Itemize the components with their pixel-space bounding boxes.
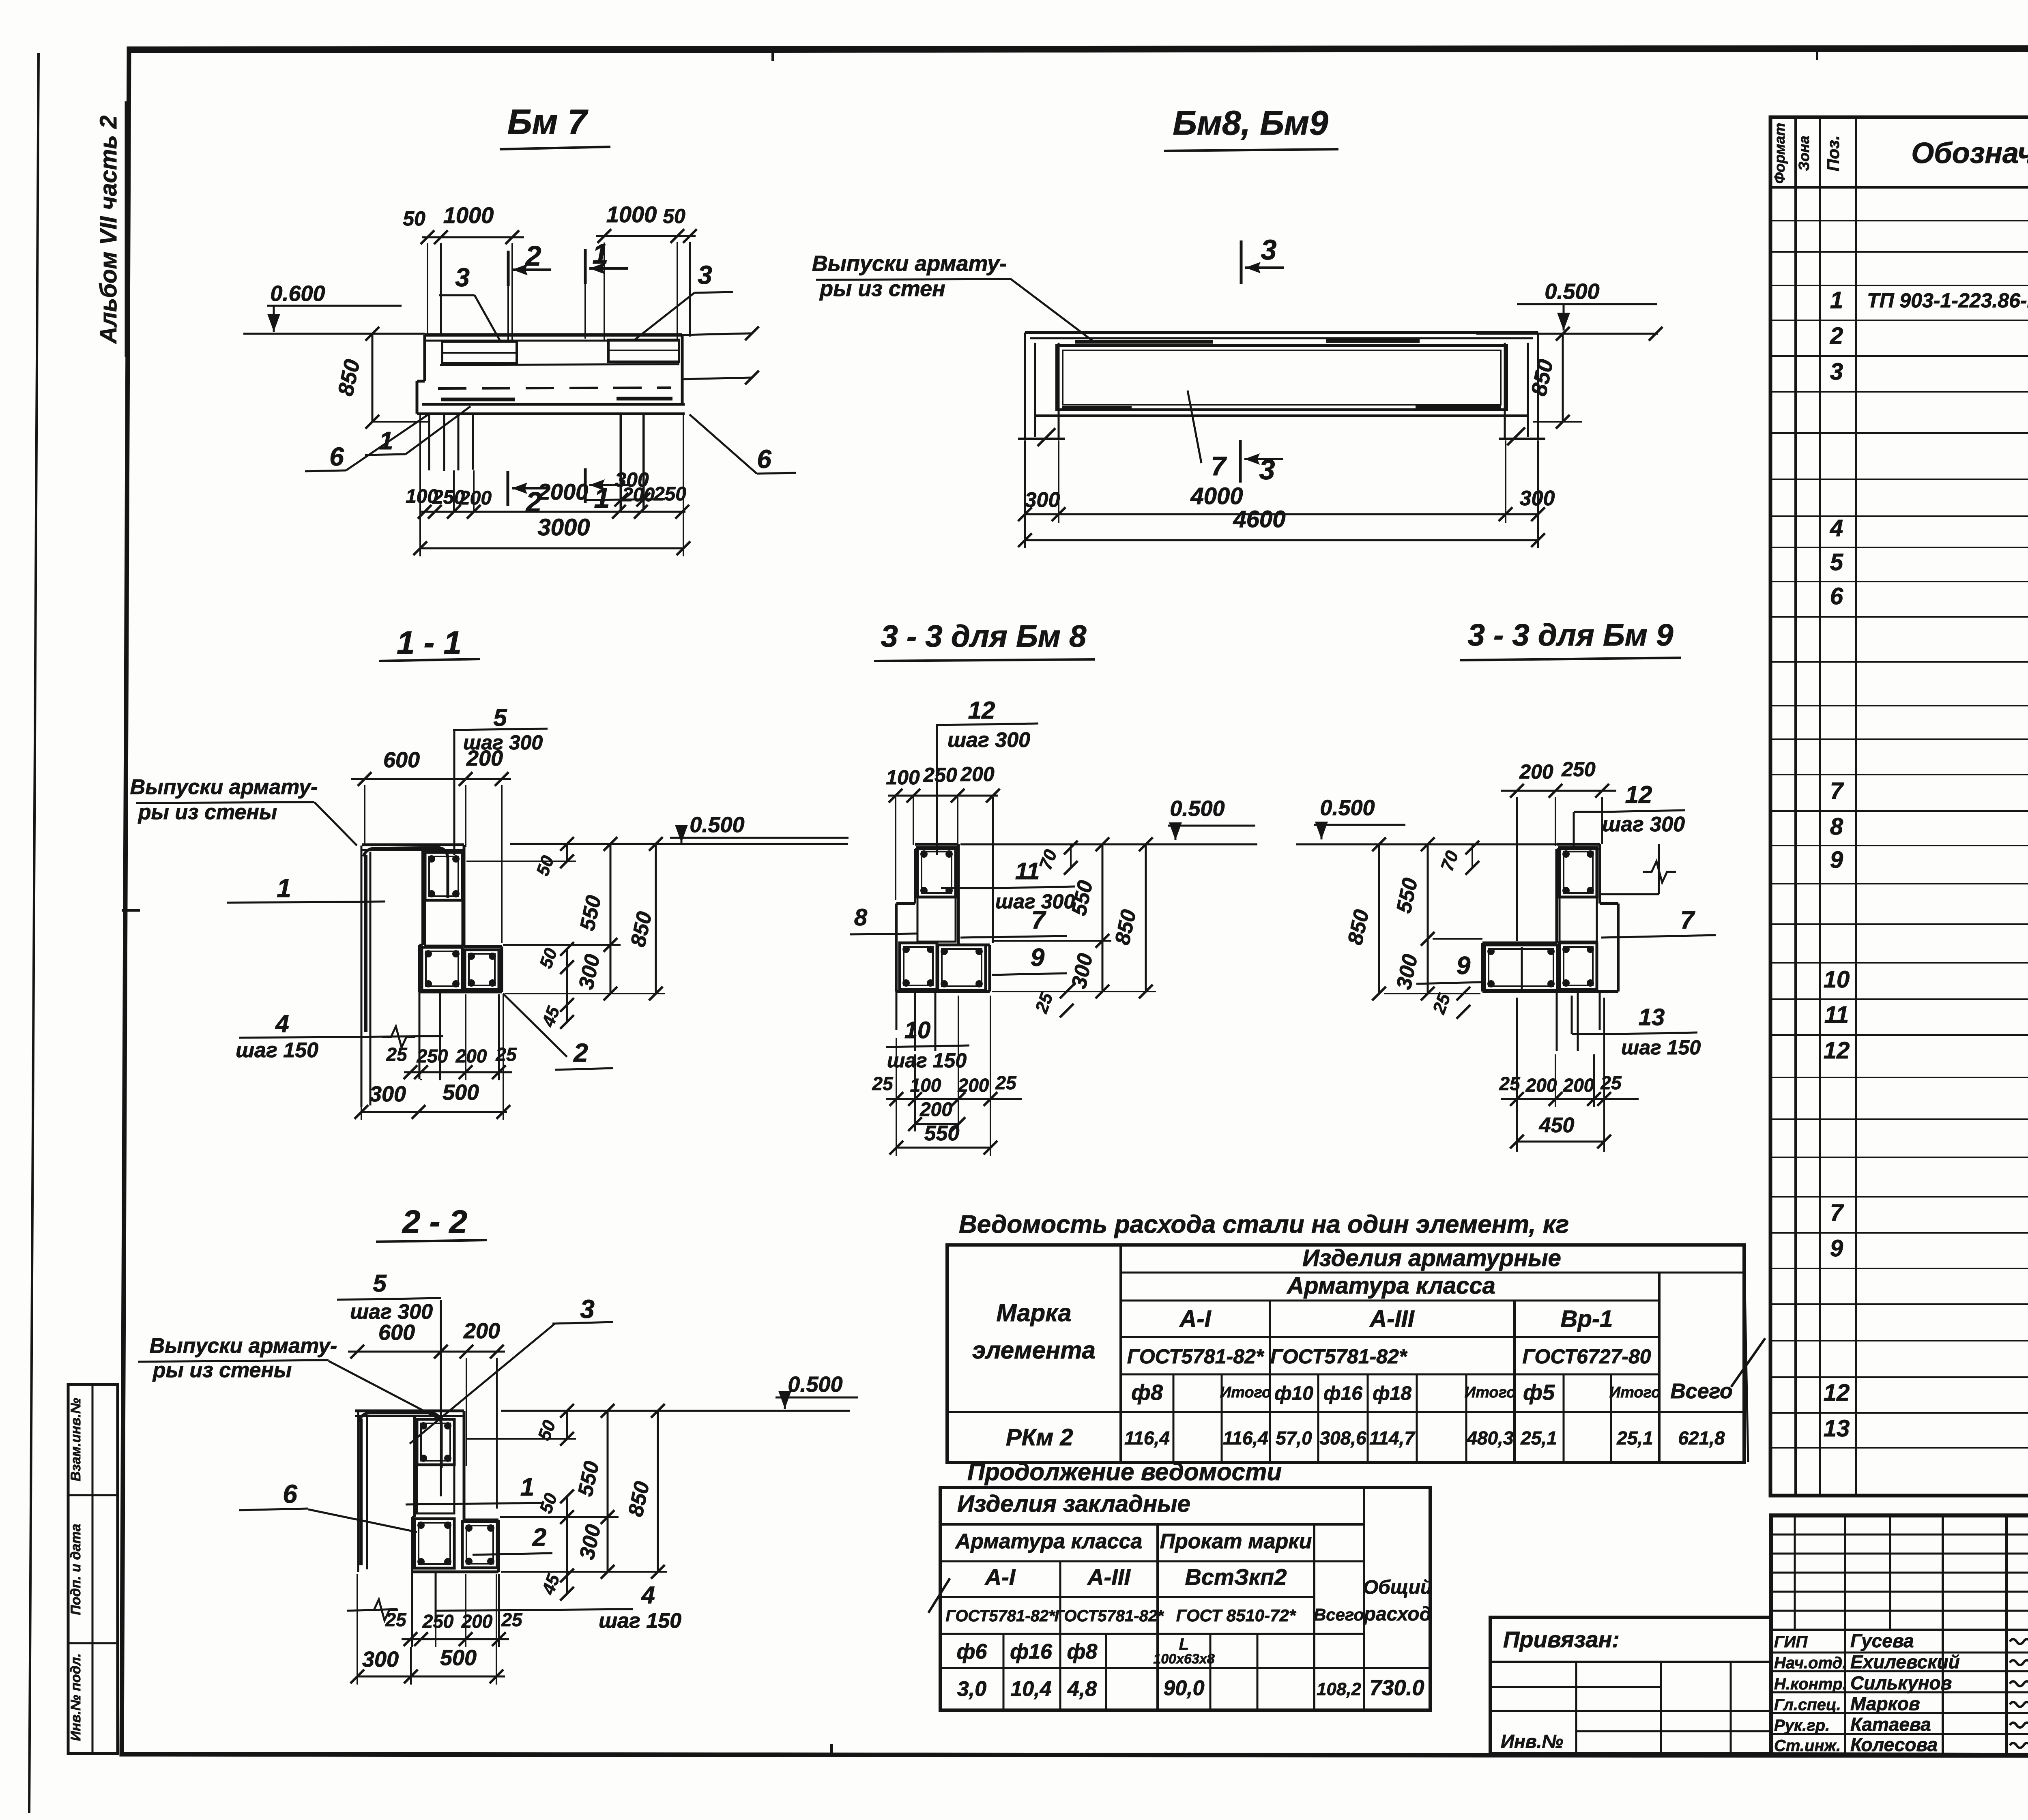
svg-text:200: 200 — [958, 1075, 989, 1096]
svg-text:Общий: Общий — [1363, 1577, 1433, 1598]
svg-text:ф16: ф16 — [1323, 1383, 1362, 1404]
svg-text:шаг 150: шаг 150 — [236, 1039, 318, 1062]
beam Bm7 inner chord line — [440, 364, 679, 365]
left stamp boxes outline — [68, 1384, 118, 1753]
dim 850 left vertical — [372, 334, 374, 422]
svg-text:РКм 2: РКм 2 — [1006, 1424, 1073, 1451]
svg-text:25: 25 — [872, 1073, 894, 1094]
cage mid s11 — [425, 900, 462, 946]
svg-text:Марка: Марка — [996, 1299, 1071, 1326]
svg-text:Катаева: Катаева — [1850, 1714, 1931, 1735]
svg-text:расход: расход — [1363, 1603, 1432, 1625]
dim ext s39 — [1384, 993, 1480, 994]
section mark 3 top mid — [1240, 240, 1243, 284]
svg-text:300: 300 — [370, 1082, 406, 1106]
svg-text:ГОСТ5781-82*: ГОСТ5781-82* — [1127, 1345, 1265, 1368]
svg-text:25,1: 25,1 — [1616, 1427, 1653, 1449]
svg-text:2: 2 — [1830, 323, 1843, 349]
beam Bm8 bottom bold bar right — [1416, 405, 1501, 408]
svg-text:ры из стены: ры из стены — [137, 801, 277, 824]
svg-text:6: 6 — [329, 442, 344, 471]
svg-text:Бм 7: Бм 7 — [507, 103, 589, 142]
svg-text:1000: 1000 — [443, 202, 494, 228]
signature Нач.отд. — [2010, 1660, 2028, 1665]
dim 1000-50 right top — [596, 235, 696, 237]
cage upper s22 — [417, 1419, 454, 1465]
svg-text:Итого: Итого — [1220, 1384, 1271, 1401]
svg-text:ГИП: ГИП — [1774, 1633, 1808, 1651]
svg-text:4000: 4000 — [1190, 483, 1243, 509]
svg-text:7: 7 — [1680, 906, 1695, 934]
svg-text:250: 250 — [422, 1611, 454, 1632]
svg-text:L: L — [1179, 1635, 1189, 1653]
cage shelf s38 — [938, 945, 986, 990]
dim ext s22 top — [466, 1358, 467, 1466]
svg-text:ГОСТ5781-82*: ГОСТ5781-82* — [1270, 1345, 1408, 1368]
left stamp inner vertical — [92, 1384, 94, 1753]
svg-text:6: 6 — [757, 444, 771, 474]
dim 600-200 top s11 — [351, 778, 511, 780]
svg-text:200: 200 — [919, 1099, 952, 1120]
svg-text:3: 3 — [1261, 234, 1277, 266]
cage bottom s11 — [422, 947, 462, 990]
svg-text:Выпуски армату-: Выпуски армату- — [150, 1334, 337, 1358]
svg-text:0.500: 0.500 — [788, 1372, 842, 1397]
svg-text:Ехилевский: Ехилевский — [1850, 1651, 1960, 1672]
svg-text:0.500: 0.500 — [1545, 279, 1599, 304]
svg-text:Всего: Всего — [1314, 1605, 1364, 1624]
dim 550-300 s38 — [1102, 844, 1104, 992]
dim 25-250-200-25 s11 — [404, 1071, 512, 1073]
dim 550-300 s11 — [610, 844, 612, 994]
fold mark tick top 1 — [771, 47, 774, 61]
vedomost1 break mark right — [1744, 1245, 1748, 1462]
svg-text:200: 200 — [455, 1045, 487, 1067]
svg-text:7: 7 — [1211, 451, 1227, 481]
svg-text:25: 25 — [501, 1609, 523, 1630]
svg-text:3 - 3 для Бм 9: 3 - 3 для Бм 9 — [1468, 618, 1674, 652]
svg-text:Колесова: Колесова — [1850, 1734, 1938, 1755]
wall below s22 — [411, 1572, 413, 1622]
beam Bm8 inner cage — [1057, 346, 1507, 410]
dim ext verticals Bm8 — [1024, 440, 1026, 548]
svg-text:9: 9 — [1830, 847, 1843, 873]
svg-text:Марков: Марков — [1850, 1693, 1920, 1714]
section s39 outline — [1557, 843, 1600, 846]
dim 550-300 s22 — [607, 1411, 609, 1572]
svg-text:200: 200 — [1563, 1075, 1594, 1096]
beam Bm7 right wall lines — [682, 333, 752, 335]
svg-text:11: 11 — [1015, 858, 1040, 884]
cage upper s11 — [425, 852, 462, 900]
svg-text:3 - 3 для Бм 8: 3 - 3 для Бм 8 — [881, 619, 1087, 654]
svg-text:9: 9 — [1457, 952, 1471, 980]
svg-text:Инв.№: Инв.№ — [1501, 1731, 1563, 1752]
dim ext verticals bottom — [419, 414, 421, 556]
section cut line 1 — [584, 284, 586, 339]
svg-text:элемента: элемента — [972, 1337, 1096, 1364]
svg-text:Взам.инв.№: Взам.инв.№ — [68, 1398, 84, 1481]
section mark 1 bottom — [584, 468, 587, 503]
svg-text:Арматура класса: Арматура класса — [955, 1530, 1143, 1553]
svg-text:250: 250 — [417, 1045, 448, 1067]
beam Bm7 bar verticals below left — [428, 414, 430, 470]
svg-text:25,1: 25,1 — [1520, 1427, 1557, 1449]
dim 450 s39 — [1517, 1141, 1604, 1143]
svg-text:2000: 2000 — [537, 479, 589, 504]
cage bottom s22 — [415, 1519, 454, 1568]
svg-text:1000: 1000 — [606, 202, 657, 227]
wall s11 outline — [361, 846, 363, 1107]
signature Гл.спец. — [2010, 1702, 2028, 1707]
album label underline — [125, 101, 127, 357]
svg-text:200: 200 — [622, 484, 655, 506]
outer left paper edge line — [29, 53, 39, 1813]
svg-text:шаг 300: шаг 300 — [1602, 813, 1685, 836]
svg-text:шаг 150: шаг 150 — [599, 1609, 681, 1633]
svg-text:1 - 1: 1 - 1 — [397, 625, 462, 661]
dim 550-300 s39 — [1427, 844, 1429, 994]
svg-text:12: 12 — [968, 697, 995, 724]
svg-text:6: 6 — [283, 1479, 297, 1509]
svg-text:50: 50 — [663, 205, 685, 227]
svg-text:Гл.спец.: Гл.спец. — [1774, 1696, 1841, 1714]
signature ГИП — [2010, 1639, 2028, 1644]
svg-text:4: 4 — [1830, 515, 1843, 541]
svg-text:1: 1 — [593, 238, 608, 270]
svg-text:13: 13 — [1639, 1004, 1665, 1030]
dim row 300-4000-300 Bm8 — [1025, 513, 1538, 515]
dim ext s11 bottom — [361, 998, 362, 1120]
svg-text:3: 3 — [580, 1294, 595, 1324]
dim row 4600 — [1025, 539, 1538, 541]
svg-text:0.500: 0.500 — [690, 813, 744, 837]
beam Bm7 bottom bold bar right — [617, 397, 672, 401]
svg-text:1: 1 — [594, 482, 610, 514]
svg-text:250: 250 — [1561, 758, 1596, 781]
svg-text:90,0: 90,0 — [1163, 1676, 1204, 1700]
svg-text:0.600: 0.600 — [270, 281, 325, 306]
svg-text:116,4: 116,4 — [1223, 1427, 1268, 1449]
svg-text:Ведомость расхода стали на оди: Ведомость расхода стали на один элемент,… — [959, 1210, 1569, 1238]
dim row 3000 — [420, 547, 683, 549]
wall below s39 — [1556, 992, 1558, 1051]
dim 200-250 top s39 — [1501, 790, 1616, 792]
signature Ст.инж. — [2010, 1743, 2028, 1748]
dim ext s38 top — [895, 797, 896, 900]
dim 200 s38 — [915, 1123, 958, 1125]
svg-text:250: 250 — [653, 483, 686, 505]
svg-text:108,2: 108,2 — [1317, 1679, 1362, 1699]
svg-text:Изделия закладные: Изделия закладные — [957, 1491, 1190, 1517]
svg-text:12: 12 — [1625, 781, 1652, 808]
svg-text:8: 8 — [1830, 813, 1843, 840]
vedomost2 break mark left — [928, 1578, 950, 1613]
left stamp divider 1 — [68, 1494, 118, 1496]
svg-text:Итого: Итого — [1465, 1384, 1516, 1401]
dim 100-250-200 top s38 — [888, 795, 998, 797]
svg-text:А-III: А-III — [1087, 1564, 1131, 1590]
beam Bm7 dashed bar — [438, 388, 671, 388]
svg-text:Рук.гр.: Рук.гр. — [1774, 1717, 1830, 1734]
svg-text:ГОСТ6727-80: ГОСТ6727-80 — [1522, 1345, 1651, 1368]
cage bottom s38 — [900, 943, 937, 989]
svg-text:Прокат марки: Прокат марки — [1160, 1530, 1312, 1553]
svg-text:25: 25 — [386, 1044, 408, 1065]
svg-text:Н.контр.: Н.контр. — [1774, 1675, 1847, 1693]
svg-text:Выпуски армату-: Выпуски армату- — [812, 251, 1007, 276]
svg-text:200: 200 — [466, 746, 503, 770]
beam Bm8 leg tick left — [1038, 428, 1055, 446]
beam Bm8 outline — [1025, 331, 1538, 334]
svg-text:100: 100 — [886, 766, 920, 789]
svg-text:4: 4 — [275, 1010, 289, 1037]
cage shelf s39 — [1484, 945, 1558, 990]
svg-text:114,7: 114,7 — [1369, 1427, 1416, 1449]
svg-text:Силькунов: Силькунов — [1850, 1672, 1952, 1693]
svg-text:4: 4 — [641, 1582, 655, 1609]
section cut line 2 — [507, 286, 509, 340]
left stamp divider 2 — [68, 1642, 118, 1644]
svg-text:200: 200 — [463, 1319, 500, 1343]
svg-text:600: 600 — [378, 1320, 415, 1345]
svg-text:7: 7 — [1830, 1200, 1844, 1226]
svg-text:50: 50 — [403, 207, 425, 230]
dim ext s22 right — [500, 1516, 619, 1518]
svg-text:12: 12 — [1824, 1037, 1850, 1064]
dim row 100-250-200-2000-200-250 — [420, 511, 685, 513]
break mark s22 — [347, 1609, 397, 1611]
break line s39 — [1658, 844, 1660, 894]
svg-text:10: 10 — [904, 1017, 931, 1043]
svg-text:5: 5 — [1830, 549, 1843, 575]
svg-text:Гусева: Гусева — [1850, 1630, 1914, 1651]
signature Рук.гр. — [2010, 1723, 2028, 1728]
dim 300-500 s11 — [361, 1111, 507, 1113]
svg-text:200: 200 — [1519, 760, 1553, 783]
svg-text:200: 200 — [459, 487, 492, 509]
cage mid s38 — [917, 897, 956, 942]
svg-text:Подп. и дата: Подп. и дата — [68, 1524, 84, 1615]
dim 25-100-200-25 s38 — [886, 1098, 1022, 1100]
svg-text:Арматура класса: Арматура класса — [1286, 1273, 1495, 1299]
svg-text:2: 2 — [532, 1524, 546, 1552]
svg-text:25: 25 — [995, 1072, 1017, 1093]
fold mark tick top 2 — [1816, 47, 1818, 60]
svg-text:Всего: Всего — [1670, 1380, 1733, 1403]
cage upper s39 — [1560, 848, 1597, 897]
dim ext s38 bottom — [896, 1038, 897, 1156]
svg-text:450: 450 — [1539, 1114, 1575, 1137]
svg-text:Изделия арматурные: Изделия арматурные — [1302, 1245, 1561, 1271]
dim 850 right of Bm8 — [1562, 334, 1564, 422]
wall s22 — [357, 1411, 359, 1572]
svg-text:600: 600 — [383, 748, 420, 772]
svg-text:ТП 903-1-223.86-КЖИ-023.020: ТП 903-1-223.86-КЖИ-023.020 — [1867, 289, 2028, 312]
dim ext s39 bottom — [1516, 998, 1518, 1152]
section mark 2 top — [507, 251, 510, 286]
svg-text:116,4: 116,4 — [1124, 1427, 1170, 1449]
svg-text:9: 9 — [1031, 944, 1045, 972]
svg-text:4600: 4600 — [1233, 506, 1285, 532]
svg-text:Выпуски армату-: Выпуски армату- — [130, 775, 318, 799]
svg-text:ф5: ф5 — [1523, 1380, 1555, 1405]
dim top ext lines — [427, 243, 428, 335]
dim ext s39 top — [1516, 797, 1518, 941]
cage upper s38 — [917, 848, 956, 897]
svg-text:А-III: А-III — [1369, 1306, 1415, 1332]
svg-text:100х63х8: 100х63х8 — [1153, 1651, 1214, 1667]
svg-text:57,0: 57,0 — [1276, 1427, 1312, 1449]
svg-text:3: 3 — [698, 260, 712, 290]
svg-text:ГОСТ5781-82*: ГОСТ5781-82* — [945, 1607, 1056, 1625]
section mark 1 top — [584, 249, 587, 284]
svg-text:13: 13 — [1824, 1415, 1850, 1442]
svg-text:Зона: Зона — [1796, 136, 1812, 171]
section mark 2 bottom — [507, 471, 509, 506]
section s22 outline — [355, 1410, 464, 1412]
svg-text:3: 3 — [1259, 454, 1275, 485]
vedomost1 grid — [947, 1245, 1744, 1462]
svg-text:1: 1 — [520, 1473, 534, 1501]
svg-text:550: 550 — [924, 1122, 960, 1145]
svg-text:4,8: 4,8 — [1067, 1677, 1097, 1701]
svg-text:Поз.: Поз. — [1824, 135, 1843, 172]
svg-text:ф6: ф6 — [957, 1640, 988, 1663]
cage mid s39 — [1560, 897, 1597, 942]
svg-text:500: 500 — [443, 1080, 479, 1105]
svg-text:Инв.№ подл.: Инв.№ подл. — [68, 1653, 84, 1741]
dim 550 bottom s38 — [896, 1147, 990, 1149]
svg-text:0.500: 0.500 — [1170, 796, 1225, 821]
svg-text:308,6: 308,6 — [1319, 1427, 1366, 1449]
svg-text:5: 5 — [493, 704, 507, 731]
label 2 s11 — [503, 994, 567, 1057]
wall below s38 — [914, 992, 916, 1051]
svg-text:ВстЗкп2: ВстЗкп2 — [1185, 1564, 1287, 1590]
frame top edge thick overline — [129, 50, 2028, 52]
fold mark tick bottom — [830, 1744, 833, 1756]
svg-text:500: 500 — [440, 1646, 477, 1670]
svg-text:ф18: ф18 — [1373, 1383, 1411, 1404]
dim 600-200 top s22 — [348, 1351, 505, 1353]
section s38 outline — [915, 843, 958, 846]
fold mark tick left — [122, 909, 140, 912]
cage KR8 left plan rect — [442, 341, 517, 363]
svg-text:2: 2 — [573, 1038, 588, 1067]
svg-text:1: 1 — [277, 874, 291, 903]
dim ext s22 bottom — [357, 1574, 358, 1685]
beam Bm8 bottom bold bar left — [1062, 406, 1132, 409]
dim ext s38 — [992, 940, 1111, 942]
cage shelf s11 — [465, 950, 499, 989]
vedomost2 grid — [940, 1487, 1430, 1710]
svg-text:А-I: А-I — [1179, 1306, 1212, 1332]
svg-text:0.500: 0.500 — [1320, 796, 1375, 820]
svg-text:ф8: ф8 — [1067, 1640, 1098, 1663]
svg-text:200: 200 — [960, 763, 995, 786]
svg-text:3000: 3000 — [537, 514, 590, 541]
svg-text:Формат: Формат — [1771, 123, 1788, 184]
svg-text:3,0: 3,0 — [957, 1677, 986, 1701]
svg-text:3: 3 — [1830, 358, 1843, 385]
dim 850 s39 — [1378, 844, 1380, 994]
dim 850 s22 — [657, 1411, 659, 1572]
svg-text:9: 9 — [1830, 1235, 1843, 1262]
svg-text:11: 11 — [1824, 1002, 1849, 1028]
beam Bm7 bottom bold bar left — [441, 398, 515, 401]
svg-text:250: 250 — [923, 764, 957, 786]
svg-text:25: 25 — [385, 1609, 407, 1630]
svg-text:ГОСТ5781-82*: ГОСТ5781-82* — [1054, 1607, 1164, 1625]
svg-text:Бм8, Бм9: Бм8, Бм9 — [1173, 104, 1328, 142]
svg-text:7: 7 — [1830, 778, 1844, 804]
section mark 3 bottom mid — [1239, 440, 1242, 483]
dim ext s11 top — [364, 785, 365, 844]
title block grid — [1771, 1515, 2028, 1756]
svg-text:Нач.отд.: Нач.отд. — [1774, 1654, 1847, 1672]
svg-text:Вр-1: Вр-1 — [1561, 1306, 1613, 1332]
svg-text:5: 5 — [373, 1270, 387, 1297]
svg-text:10: 10 — [1824, 966, 1850, 993]
svg-text:Продолжение ведомости: Продолжение ведомости — [967, 1458, 1282, 1485]
svg-text:300: 300 — [1025, 488, 1060, 512]
svg-text:480,3: 480,3 — [1466, 1427, 1514, 1449]
beam Bm7 bar verticals below right — [620, 414, 622, 509]
svg-text:2 - 2: 2 - 2 — [402, 1204, 467, 1240]
svg-text:12: 12 — [1824, 1380, 1850, 1406]
svg-text:2: 2 — [525, 240, 541, 272]
svg-text:ф16: ф16 — [1010, 1640, 1053, 1663]
svg-text:200: 200 — [1525, 1075, 1557, 1096]
svg-text:Ст.инж.: Ст.инж. — [1774, 1737, 1841, 1755]
svg-text:Обозначение: Обозначение — [1911, 137, 2028, 170]
svg-text:Альбом VII часть 2: Альбом VII часть 2 — [95, 116, 122, 345]
svg-text:Привязан:: Привязан: — [1503, 1627, 1620, 1652]
beam Bm8 top bold bar right — [1326, 339, 1420, 343]
hook bar s11 — [364, 855, 367, 1032]
wall below s11 — [419, 992, 421, 1079]
dim 50-1000 left top — [422, 236, 524, 238]
beam Bm7 outline — [425, 333, 682, 337]
svg-text:621,8: 621,8 — [1678, 1427, 1725, 1449]
svg-text:А-I: А-I — [984, 1564, 1016, 1590]
privyazan box grid — [1490, 1617, 1771, 1753]
cage mid s22 — [417, 1465, 454, 1513]
svg-text:7: 7 — [1031, 906, 1046, 934]
beam Bm8 top bold bar left — [1075, 340, 1213, 344]
svg-text:300: 300 — [362, 1647, 399, 1672]
cage KR8 right plan rect — [608, 340, 679, 362]
svg-text:6: 6 — [1830, 583, 1843, 610]
dim 25-250-200-25 s22 — [402, 1638, 509, 1640]
cage shelf s22 — [462, 1522, 497, 1568]
dim 25-200-200-25 s39 — [1501, 1098, 1639, 1100]
dim 850 s38 — [1145, 844, 1147, 992]
label 7 with leader — [1188, 391, 1201, 463]
dim 850 s11 — [655, 844, 657, 994]
dim ext s11 right — [503, 944, 621, 946]
section s11 outline — [362, 843, 464, 846]
hook bar s22 — [359, 1419, 363, 1565]
svg-text:шаг 150: шаг 150 — [1621, 1036, 1701, 1059]
svg-text:730.0: 730.0 — [1369, 1676, 1424, 1700]
svg-text:1: 1 — [1830, 287, 1843, 313]
svg-text:Итого: Итого — [1609, 1384, 1661, 1401]
svg-text:3: 3 — [455, 263, 470, 292]
dim 850 ext line — [373, 421, 430, 423]
svg-text:шаг 150: шаг 150 — [887, 1049, 967, 1072]
